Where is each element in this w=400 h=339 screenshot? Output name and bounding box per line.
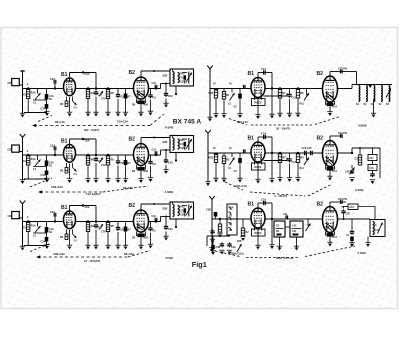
svg-text:B1: B1	[248, 202, 255, 208]
svg-text:C11: C11	[283, 213, 288, 216]
svg-text:C2A: C2A	[50, 211, 55, 214]
svg-text:R1A: R1A	[31, 92, 36, 95]
svg-text:C20: C20	[346, 213, 351, 216]
svg-text:B1: B1	[61, 139, 68, 145]
svg-text:C4A: C4A	[231, 246, 236, 249]
svg-text:T1A 4p(4/7): T1A 4p(4/7)	[86, 192, 100, 196]
svg-text:C19+C4A: C19+C4A	[117, 121, 128, 124]
svg-text:CB: CB	[8, 149, 12, 152]
svg-text:C22 C26: C22 C26	[302, 147, 312, 150]
svg-text:C24: C24	[345, 171, 350, 174]
svg-text:C20: C20	[168, 228, 173, 231]
svg-text:S2B: S2B	[163, 141, 168, 144]
svg-text:R6+C4A: R6+C4A	[55, 121, 65, 124]
svg-text:C20: C20	[168, 162, 173, 165]
svg-text:R9 C9: R9 C9	[255, 166, 262, 169]
svg-text:R15: R15	[180, 206, 185, 209]
svg-text:C23: C23	[355, 158, 360, 161]
svg-text:C13: C13	[292, 97, 297, 100]
svg-text:BX 745 A: BX 745 A	[173, 119, 202, 126]
svg-text:R15: R15	[180, 73, 185, 76]
svg-text:12 - 10.5(4/7): 12 - 10.5(4/7)	[84, 259, 100, 263]
svg-text:C16: C16	[152, 149, 157, 152]
svg-text:L1A: L1A	[229, 207, 234, 210]
svg-text:B2: B2	[317, 136, 324, 142]
svg-text:C6A: C6A	[85, 206, 90, 209]
svg-text:C3A: C3A	[41, 108, 46, 111]
svg-text:S2B: S2B	[163, 208, 168, 211]
svg-text:52 - 15(4/7): 52 - 15(4/7)	[276, 127, 290, 131]
svg-text:C4B: C4B	[216, 246, 221, 249]
svg-text:R8A: R8A	[144, 237, 149, 240]
svg-text:1833 - (4/7+3): 1833 - (4/7+3)	[276, 256, 293, 260]
svg-text:C4B+C4A: C4B+C4A	[51, 185, 63, 189]
svg-text:5 - 15(4/7): 5 - 15(4/7)	[275, 194, 288, 198]
svg-text:S 8028: S 8028	[358, 124, 367, 128]
svg-text:Fig1: Fig1	[192, 260, 207, 269]
svg-text:C1A: C1A	[261, 199, 266, 202]
svg-text:R1B: R1B	[209, 157, 214, 160]
svg-text:C1A: C1A	[261, 133, 266, 136]
svg-text:C2A: C2A	[50, 145, 55, 148]
svg-text:B2: B2	[129, 203, 136, 209]
svg-text:B1: B1	[61, 72, 68, 78]
svg-text:252 - 15(4/7): 252 - 15(4/7)	[84, 128, 99, 132]
svg-text:B1: B1	[248, 71, 255, 77]
svg-text:C7A: C7A	[101, 231, 106, 234]
svg-text:C16: C16	[152, 82, 157, 85]
svg-text:C6A: C6A	[85, 73, 90, 76]
svg-text:CB: CB	[8, 215, 12, 218]
svg-text:C3A: C3A	[41, 241, 46, 244]
svg-text:S2B: S2B	[163, 75, 168, 78]
svg-text:L4C: L4C	[292, 225, 297, 228]
svg-text:R8A: R8A	[144, 170, 149, 173]
svg-text:C16: C16	[369, 168, 374, 170]
svg-text:CB: CB	[8, 82, 12, 85]
svg-text:B2: B2	[129, 70, 136, 76]
svg-text:A 603p: A 603p	[355, 188, 364, 192]
svg-text:S 5010: S 5010	[358, 251, 367, 255]
svg-text:B2: B2	[317, 202, 324, 208]
svg-text:C4B+C4A: C4B+C4A	[53, 252, 65, 256]
svg-text:R18: R18	[237, 240, 242, 243]
svg-text:B1: B1	[248, 136, 255, 142]
svg-text:B1: B1	[61, 205, 68, 211]
svg-text:B2: B2	[317, 71, 324, 77]
svg-text:C7A: C7A	[101, 98, 106, 101]
svg-text:C19: C19	[349, 206, 354, 209]
svg-text:C7A: C7A	[101, 164, 106, 167]
svg-text:57326: 57326	[166, 256, 174, 260]
svg-text:C3A: C3A	[41, 174, 46, 177]
svg-text:R11: R11	[300, 167, 305, 170]
svg-text:C16: C16	[152, 215, 157, 218]
svg-text:B2: B2	[129, 137, 136, 143]
svg-text:C14: C14	[375, 229, 380, 232]
svg-text:R15: R15	[180, 139, 185, 142]
svg-text:R1A: R1A	[31, 225, 36, 228]
svg-text:C6A: C6A	[85, 140, 90, 143]
svg-text:R9 C9: R9 C9	[255, 232, 262, 235]
svg-text:C2A: C2A	[50, 78, 55, 81]
svg-text:R8A: R8A	[144, 104, 149, 107]
svg-text:C17: C17	[369, 158, 374, 160]
svg-text:R34+C44: R34+C44	[236, 184, 248, 188]
svg-text:R1A: R1A	[31, 158, 36, 161]
svg-text:R14: R14	[333, 170, 338, 173]
svg-text:R11: R11	[300, 103, 305, 106]
svg-text:R1B: R1B	[209, 92, 214, 95]
svg-text:R14: R14	[333, 106, 338, 109]
svg-text:C1A: C1A	[261, 68, 266, 71]
svg-text:R 6043: R 6043	[165, 126, 174, 130]
svg-text:C20: C20	[168, 95, 173, 98]
svg-text:C1B: C1B	[206, 209, 211, 212]
svg-text:R9 C9: R9 C9	[255, 102, 262, 105]
svg-text:C13: C13	[292, 161, 297, 164]
svg-text:A 6382: A 6382	[165, 190, 174, 194]
svg-text:C21: C21	[292, 230, 297, 233]
svg-text:R14: R14	[333, 236, 338, 239]
